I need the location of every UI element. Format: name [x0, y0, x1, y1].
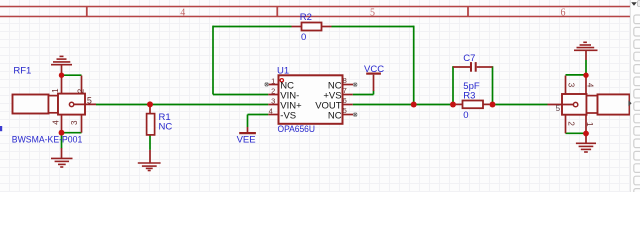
svg-text:2: 2: [567, 121, 576, 126]
svg-text:NC: NC: [328, 110, 342, 121]
svg-text:4: 4: [52, 120, 61, 125]
svg-text:3: 3: [271, 97, 275, 106]
svg-text:4: 4: [586, 83, 595, 88]
svg-text:5: 5: [343, 106, 347, 115]
svg-text:0: 0: [301, 32, 306, 43]
svg-text:VCC: VCC: [364, 64, 384, 75]
svg-text:3: 3: [567, 83, 576, 88]
svg-text:OPA656U: OPA656U: [278, 124, 316, 135]
svg-text:BWSMA-KE-P001: BWSMA-KE-P001: [12, 134, 83, 145]
svg-text:6: 6: [343, 96, 347, 105]
svg-text:C7: C7: [463, 53, 475, 64]
svg-text:U1: U1: [277, 65, 289, 76]
svg-text:8: 8: [343, 76, 347, 85]
svg-text:2: 2: [271, 87, 275, 96]
svg-text:0: 0: [463, 110, 468, 121]
svg-text:RF1: RF1: [13, 66, 31, 77]
svg-text:-VS: -VS: [280, 110, 296, 121]
svg-text:NC: NC: [159, 122, 173, 133]
svg-text:5: 5: [370, 7, 375, 18]
svg-text:R2: R2: [300, 12, 312, 23]
svg-text:4: 4: [269, 107, 273, 116]
svg-text:4: 4: [180, 7, 185, 18]
svg-text:1: 1: [271, 77, 275, 86]
svg-text:6: 6: [561, 7, 566, 18]
svg-text:5: 5: [556, 104, 561, 113]
svg-text:1: 1: [51, 88, 60, 93]
svg-text:3: 3: [70, 120, 79, 125]
svg-text:7: 7: [343, 86, 347, 95]
svg-text:R3: R3: [463, 91, 475, 102]
svg-text:VEE: VEE: [237, 134, 256, 145]
svg-text:1: 1: [585, 122, 594, 127]
svg-text:2: 2: [76, 88, 85, 93]
svg-text:5: 5: [87, 95, 92, 105]
